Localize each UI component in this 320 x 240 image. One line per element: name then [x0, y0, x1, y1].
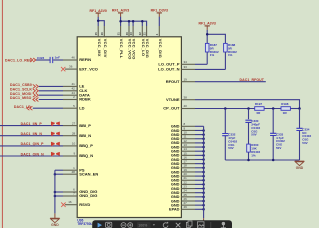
- svg-text:16: 16: [68, 200, 72, 204]
- pin 34 LO_OUT_P: [181, 63, 195, 65]
- wire LO_OUT_P: [195, 63, 207, 65]
- svg-text:VCC_DIV: VCC_DIV: [103, 39, 108, 58]
- svg-text:48: 48: [71, 170, 75, 174]
- svg-text:GND: GND: [51, 223, 59, 227]
- toolbar separator: [210, 222, 212, 228]
- svg-text:21: 21: [142, 32, 146, 35]
- junction GND bus 4: [202, 142, 205, 145]
- capacitor C332: [222, 134, 228, 136]
- pin 23 VCC_VCO (top): [132, 26, 134, 37]
- pin GND (right stack 8): [181, 154, 195, 156]
- svg-text:1%: 1%: [228, 53, 233, 57]
- svg-text:RSVD: RSVD: [79, 202, 90, 207]
- svg-text:50V: 50V: [276, 146, 281, 150]
- pin 4 VCC_DIG (top): [158, 26, 160, 37]
- junction GND_DIG 2: [54, 195, 57, 198]
- junction GND_DIG 1: [54, 191, 57, 194]
- junction GND bus 16: [202, 191, 205, 194]
- wire DAC1_QIN_P: [0, 145, 63, 147]
- toolbar image icon: [197, 222, 204, 228]
- toolbar zoom in icon: [128, 223, 133, 228]
- toolbar close icon: [176, 223, 181, 228]
- wire LO_OUT_N: [195, 68, 225, 70]
- junction GND bus 9: [202, 162, 205, 165]
- junction bottom rail C333: [272, 159, 275, 162]
- svg-text:41: 41: [71, 82, 75, 86]
- svg-text:CP_OUT: CP_OUT: [163, 106, 180, 111]
- pin 21 VCC_DIG (top): [146, 26, 148, 37]
- wire C332 branch: [224, 109, 226, 134]
- junction GND bus 17: [202, 196, 205, 199]
- toolbar pin icon: [221, 222, 226, 228]
- junction GND bus 6: [202, 150, 205, 153]
- pin 31 VCC_PLL (top): [120, 26, 122, 37]
- pin 28 BBI_N: [63, 135, 77, 137]
- resistor R197: [255, 107, 264, 111]
- pin GND (right stack 15): [181, 183, 195, 185]
- wire DAC1_LD to pin 5: [33, 107, 63, 109]
- junction GND bus 10: [202, 167, 205, 170]
- wire GND_DIG 2: [55, 195, 63, 197]
- pin 19 RFOUT: [181, 81, 195, 83]
- svg-text:19: 19: [184, 77, 188, 81]
- sheet border line: [1, 0, 3, 228]
- svg-text:DAC1_RFOUT: DAC1_RFOUT: [240, 78, 265, 82]
- op-amp U36 TRF3750 IC body: [77, 37, 181, 218]
- svg-text:DAC1_CSB0: DAC1_CSB0: [10, 83, 32, 87]
- pin 41 LE: [63, 85, 77, 87]
- pin GND (right stack 16): [181, 188, 195, 190]
- pin 30 VCC_VCO (top): [128, 26, 130, 37]
- ground symbol left: [50, 218, 60, 227]
- pin 22 VCC_LO (top): [141, 26, 143, 37]
- svg-text:22: 22: [138, 32, 142, 35]
- svg-text:1%: 1%: [251, 153, 256, 157]
- svg-text:BBQ_P: BBQ_P: [79, 143, 93, 148]
- pin 27 BBI_P: [63, 125, 77, 127]
- pin 16 RSVD with no-connect: [65, 204, 77, 206]
- pin 2 RDBK: [63, 99, 77, 101]
- svg-text:R197: R197: [255, 102, 263, 106]
- svg-text:50V: 50V: [251, 133, 256, 137]
- power port RF1_A3V3: [112, 9, 129, 17]
- pin GND (right stack 14): [181, 179, 195, 181]
- svg-text:VCC_DIG: VCC_DIG: [145, 39, 150, 58]
- svg-text:27: 27: [72, 121, 76, 125]
- svg-text:1nF: 1nF: [55, 56, 61, 60]
- pin 6 GND_DIG: [63, 191, 77, 193]
- wire RFOUT: [195, 81, 266, 83]
- pin 5 LD: [63, 107, 77, 109]
- junction CP_OUT at C330: [247, 107, 250, 110]
- svg-text:100%: 100%: [138, 224, 147, 228]
- pin 36 EXT_VCO with no-connect: [65, 68, 77, 70]
- pin 33 LO_OUT_N: [181, 68, 195, 70]
- power port RF1_A3V3: [199, 22, 216, 30]
- pin 40 CP_OUT: [181, 108, 195, 110]
- pin GND (right stack 7): [181, 150, 195, 152]
- svg-text:LD: LD: [79, 105, 84, 110]
- junction RF1_A3V0: [97, 19, 100, 22]
- pin 26 VCC_DIV (top): [103, 26, 105, 37]
- svg-text:VCC_MX: VCC_MX: [97, 39, 102, 57]
- pin GND (right stack 3): [181, 134, 195, 136]
- pin 48 SCAN_EN: [63, 173, 77, 175]
- junction GND bus 11: [202, 171, 205, 174]
- wire R188 to LO_OUT_N: [224, 52, 226, 69]
- wire DAC1_IIN_P: [0, 125, 63, 127]
- screenshot toolbar overlay: [92, 220, 232, 230]
- junction GND bus 7: [202, 154, 205, 157]
- junction GND bus 5: [202, 146, 205, 149]
- svg-text:VTUNE: VTUNE: [166, 97, 180, 102]
- junction GND bus 3: [202, 138, 205, 141]
- wire PS down: [55, 169, 63, 171]
- svg-text:36: 36: [69, 65, 73, 69]
- junction at C333: [272, 107, 275, 110]
- pin GND (right stack 20): [181, 204, 195, 206]
- pin 7 GND_DIG: [63, 195, 77, 197]
- wire C332 to bottom rail: [224, 136, 226, 160]
- junction RF1_A3V3 right: [206, 33, 209, 36]
- junction GND bus 13: [202, 179, 205, 182]
- differential pair marker on DAC1_QIN_N: [51, 152, 60, 157]
- svg-text:23: 23: [129, 32, 133, 35]
- svg-text:40: 40: [184, 104, 188, 108]
- pin GND (right stack 6): [181, 146, 195, 148]
- svg-text:28: 28: [72, 131, 76, 135]
- pin GND (right stack 9): [181, 159, 195, 161]
- junction GND bus 20: [202, 208, 205, 211]
- resistor R188: [224, 43, 228, 52]
- junction GND bus 12: [202, 175, 205, 178]
- toolbar rotate icon: [163, 222, 168, 228]
- pin 25 VCC_MX (top): [97, 26, 99, 37]
- pin 42 CLK: [63, 90, 77, 92]
- wire RF1_A3V3 bus: [120, 17, 122, 22]
- svg-text:DAC1_LO_REF: DAC1_LO_REF: [5, 58, 32, 62]
- svg-text:REFIN: REFIN: [79, 57, 91, 62]
- svg-text:26: 26: [100, 32, 104, 35]
- svg-text:RF1_A3V3: RF1_A3V3: [112, 9, 129, 13]
- junction GND bus 2: [202, 133, 205, 136]
- junction GND bus 19: [202, 204, 205, 207]
- junction GND bus 1: [202, 129, 205, 132]
- pin GND (right stack 19): [181, 200, 195, 202]
- svg-text:46: 46: [71, 56, 75, 60]
- svg-text:50V: 50V: [302, 141, 307, 145]
- ground symbol right: [295, 161, 305, 170]
- junction bottom rail R200: [247, 159, 250, 162]
- capacitor C333: [270, 133, 276, 135]
- wire RF1_A3V3 to resistors: [206, 30, 208, 34]
- svg-text:GND_DIG: GND_DIG: [79, 193, 97, 198]
- differential pair marker on DAC1_IIN_P: [51, 122, 60, 127]
- pin EPAD (right stack 21): [181, 208, 195, 210]
- wire C333 to bottom rail: [272, 136, 274, 161]
- junction at C334: [298, 107, 301, 110]
- wire VTUNE rail: [195, 100, 300, 109]
- pin 10 BBQ_P: [63, 145, 77, 147]
- svg-text:42: 42: [71, 87, 75, 91]
- pin GND (right stack 18): [181, 196, 195, 198]
- junction GND bus 14: [202, 183, 205, 186]
- svg-text:EPAD: EPAD: [169, 207, 180, 212]
- pin GND (right stack 13): [181, 175, 195, 177]
- capacitor C323: [50, 57, 53, 63]
- svg-text:VCC_DIG: VCC_DIG: [158, 39, 163, 58]
- wire R200 to bottom rail: [248, 152, 250, 160]
- wire CP_OUT rail: [195, 108, 255, 110]
- svg-text:BBI_N: BBI_N: [79, 133, 91, 138]
- junction GND bus 18: [202, 200, 205, 203]
- svg-text:VCC_PLL: VCC_PLL: [119, 39, 124, 59]
- wire DAC1_IIN_N: [0, 135, 63, 137]
- svg-text:VCC_VCO: VCC_VCO: [132, 39, 137, 60]
- pin GND (right stack 17): [181, 192, 195, 194]
- toolbar zoom dropdown: [137, 222, 151, 228]
- wire C333 branch: [272, 109, 274, 134]
- pin GND (right stack 1): [181, 125, 195, 127]
- differential pair marker on DAC1_QIN_P: [51, 142, 60, 147]
- svg-text:38: 38: [184, 95, 188, 99]
- svg-text:31: 31: [116, 32, 120, 35]
- toolbar zoom out icon: [121, 223, 126, 228]
- ground stem behind toolbar: [203, 218, 205, 221]
- pin 9 BBQ_N: [63, 155, 77, 157]
- svg-text:30: 30: [125, 32, 129, 35]
- svg-text:BBQ_N: BBQ_N: [79, 153, 93, 158]
- svg-text:RF1_A3V3: RF1_A3V3: [199, 22, 216, 26]
- wire DAC1_CSB0 to pin 41: [39, 85, 63, 87]
- junction RF1_A3V3 bus: [119, 20, 122, 23]
- wire C330 branch: [248, 109, 250, 120]
- wire GND_DIG 1: [55, 191, 63, 193]
- wire DAC1_MISO to pin 2: [39, 99, 63, 101]
- wire C334 branch: [299, 109, 301, 129]
- wire DAC1_SCLK to pin 42: [39, 90, 63, 92]
- svg-text:DAC1_SCLK: DAC1_SCLK: [10, 88, 32, 92]
- capacitor C334: [296, 128, 302, 130]
- pin GND (right stack 11): [181, 167, 195, 169]
- svg-text:50V: 50V: [228, 146, 233, 150]
- wire DAC1_MOSI to pin 44: [39, 94, 63, 96]
- wire DAC1_QIN_N: [0, 155, 63, 157]
- svg-text:VCC_LO: VCC_LO: [141, 39, 146, 56]
- svg-text:1%: 1%: [210, 53, 215, 57]
- pin GND (right stack 4): [181, 138, 195, 140]
- wire R187 to LO_OUT_P: [206, 52, 208, 64]
- toolbar copy icon: [186, 221, 192, 227]
- pin GND (right stack 10): [181, 163, 195, 165]
- resistor R187: [205, 43, 209, 52]
- svg-text:GND: GND: [296, 166, 304, 170]
- differential pair marker on DAC1_IIN_N: [51, 132, 60, 137]
- power port RF1_D3V3: [151, 9, 168, 17]
- wire loop filter bottom rail: [225, 159, 299, 161]
- wire RF1_D3V3 to pin 4: [158, 17, 160, 26]
- svg-text:R198: R198: [281, 102, 289, 106]
- svg-text:SCAN_EN: SCAN_EN: [79, 171, 98, 176]
- svg-text:10: 10: [72, 142, 76, 146]
- pin 44 DATA: [63, 94, 77, 96]
- resistor R200: [247, 144, 251, 152]
- svg-text:34: 34: [184, 60, 188, 64]
- power port RF1_A3V0: [90, 9, 107, 17]
- junction CP_OUT at C332: [224, 107, 227, 110]
- svg-text:33: 33: [184, 65, 188, 69]
- wire C330 to R200: [248, 122, 250, 144]
- svg-text:49: 49: [184, 205, 188, 209]
- toolbar play icon: [98, 223, 102, 228]
- svg-text:LO_OUT_N: LO_OUT_N: [158, 67, 179, 72]
- junction SCAN_EN: [54, 173, 57, 176]
- wire C323 to pin 46: [53, 59, 63, 61]
- svg-text:C323: C323: [37, 56, 45, 60]
- junction GND bus 15: [202, 187, 205, 190]
- svg-text:DAC1_MISO: DAC1_MISO: [10, 96, 32, 100]
- wire RF1_A3V0 to pins: [97, 17, 99, 21]
- pin GND (right stack 12): [181, 171, 195, 173]
- svg-text:RDBK: RDBK: [79, 97, 91, 102]
- pin 46 REFIN: [63, 59, 77, 61]
- resistor R198: [281, 107, 290, 111]
- pin 1 PS: [63, 169, 77, 171]
- svg-text:RF1_A3V0: RF1_A3V0: [90, 9, 107, 13]
- svg-text:RF1_D3V3: RF1_D3V3: [151, 9, 168, 13]
- wire PS net to ground: [54, 170, 56, 213]
- pin GND (right stack 5): [181, 142, 195, 144]
- wire SCAN_EN: [55, 173, 63, 175]
- svg-text:25: 25: [94, 32, 98, 35]
- wire DAC1_LO_REF to C323: [36, 59, 50, 61]
- svg-text:EXT_VCO: EXT_VCO: [79, 66, 98, 71]
- svg-text:BBI_P: BBI_P: [79, 123, 91, 128]
- capacitor C330: [245, 120, 251, 122]
- wire C334 to bottom rail: [299, 131, 301, 161]
- pin GND (right stack 2): [181, 129, 195, 131]
- junction GND bus 8: [202, 158, 205, 161]
- wire GND bus vertical: [203, 126, 205, 218]
- pin 38 VTUNE: [181, 99, 195, 101]
- toolbar camera icon: [106, 222, 112, 227]
- svg-text:RFOUT: RFOUT: [166, 79, 180, 84]
